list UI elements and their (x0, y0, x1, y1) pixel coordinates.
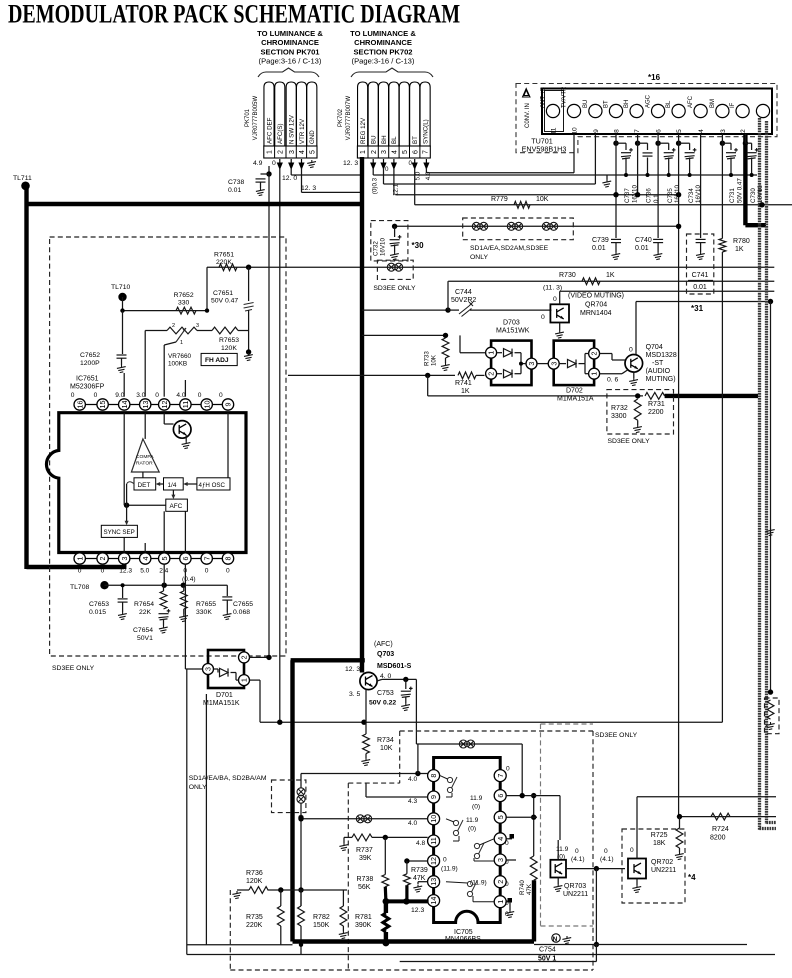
svg-text:11: 11 (429, 837, 438, 844)
svg-text:47K: 47K (526, 883, 533, 895)
svg-text:BM: BM (710, 99, 716, 108)
svg-text:GND: GND (309, 130, 316, 144)
svg-text:9: 9 (429, 795, 438, 799)
svg-text:4.0: 4.0 (408, 820, 417, 827)
svg-text:IC705: IC705 (454, 929, 473, 936)
svg-text:C736: C736 (646, 188, 653, 203)
capacitor C741 0.01 (696, 238, 706, 240)
svg-text:2: 2 (487, 372, 496, 376)
dashed outline IC705 SD3EE region (400, 730, 593, 732)
svg-text:9.0: 9.0 (115, 392, 124, 399)
svg-text:R736: R736 (246, 870, 263, 877)
wire y796.7 to cable (637, 796, 776, 798)
resistor R7655 330K (183, 585, 185, 591)
wire pin5 to x533.7 (506, 816, 537, 818)
wire tuner pin7 down (637, 143, 639, 195)
wire R730 line y281 (448, 280, 774, 282)
thick wire left edge vertical (24, 186, 28, 569)
svg-text:D701: D701 (216, 692, 233, 699)
CONV.IN antenna symbol (523, 89, 531, 98)
svg-text:QR702: QR702 (651, 859, 673, 866)
wire D703 pin3 to D702 pin3 (537, 363, 548, 365)
resistor R7651 220K (219, 264, 237, 271)
svg-text:0: 0 (205, 568, 209, 575)
svg-text:8: 8 (614, 129, 621, 133)
svg-text:12. 3: 12. 3 (301, 185, 316, 192)
svg-text:(11.9): (11.9) (441, 866, 458, 873)
capacitor C731 50V 0.47 (720, 141, 725, 146)
svg-text:50V 0.47: 50V 0.47 (211, 298, 238, 305)
resistor R733 10K (442, 338, 449, 358)
svg-text:BU: BU (583, 100, 589, 108)
wire IC705 pin10 line (301, 818, 428, 820)
transistor inside IC7651 (173, 421, 191, 439)
svg-text:C7651: C7651 (213, 290, 233, 297)
svg-text:DET: DET (138, 482, 151, 489)
wire y375 R741 line (288, 374, 455, 376)
wire pin3 from SYNC SEP (123, 537, 125, 552)
svg-text:330: 330 (178, 300, 190, 307)
wire y310 C744 line (362, 309, 448, 311)
wire tuner pin8 down to C739 (615, 143, 617, 238)
svg-text:11: 11 (181, 401, 190, 408)
svg-text:AFC: AFC (170, 503, 183, 510)
thick pin14 wire (386, 899, 429, 903)
wire dot cable R779 line (759, 202, 764, 207)
wire R724 line y816.6 (680, 816, 777, 818)
svg-text:IF: IF (730, 102, 736, 108)
svg-text:CHROMINANCE: CHROMINANCE (261, 38, 319, 47)
svg-text:UN2211: UN2211 (563, 891, 588, 898)
svg-text:11: 11 (551, 127, 558, 134)
svg-text:4.0: 4.0 (176, 392, 185, 399)
resistor R730 1K (582, 278, 600, 285)
box FH ADJ (201, 353, 237, 365)
IC7651 chain bottom (74, 558, 234, 560)
svg-text:50V2R2: 50V2R2 (451, 297, 476, 304)
svg-text:9: 9 (224, 403, 233, 407)
IC705 left pin chain (433, 770, 435, 906)
diode D703 lower (497, 373, 502, 375)
svg-text:0.01: 0.01 (228, 187, 241, 194)
capacitor C732 16V10 (392, 224, 397, 229)
capacitor C753 50V 0.22 (405, 679, 407, 689)
svg-text:56K: 56K (358, 884, 371, 891)
capacitor C737 16V10 (613, 141, 618, 146)
svg-text:Q703: Q703 (377, 651, 394, 658)
svg-text:MA151WK: MA151WK (496, 328, 530, 335)
svg-text:5: 5 (676, 129, 683, 133)
capacitor C734 16V10 (676, 141, 681, 146)
wire BL y194.7 (395, 194, 678, 196)
wire BM corner to D701 line y722 (260, 721, 722, 723)
svg-text:8: 8 (429, 774, 438, 778)
resistor R736 120K (232, 891, 241, 899)
ground of capacitor bus (606, 175, 608, 180)
svg-text:22K: 22K (139, 609, 152, 616)
svg-text:2: 2 (172, 323, 175, 329)
svg-text:C740: C740 (635, 237, 652, 244)
svg-text:(AUDIO: (AUDIO (646, 368, 671, 375)
svg-text:(0)0.3: (0)0.3 (372, 177, 379, 194)
wire PK702 pin6 vertical (414, 168, 416, 205)
svg-text:M1MA151K: M1MA151K (203, 700, 240, 707)
svg-text:TV/VTR: TV/VTR (562, 86, 568, 108)
wire pin6 to x533.7 (506, 795, 560, 797)
wire pin6 line to QR703 region (559, 796, 561, 840)
svg-text:IC7651: IC7651 (76, 376, 99, 383)
svg-text:BH: BH (381, 135, 388, 144)
box 1/4 (164, 478, 184, 490)
svg-text:1/4: 1/4 (168, 482, 177, 489)
wire pin6 down to D701 (184, 564, 186, 669)
wire PK701 pin1 vertical (268, 166, 270, 174)
svg-text:0: 0 (71, 392, 75, 399)
wire 12.3 stub PK701 pin4 (302, 191, 361, 193)
wire y335 R733 line (362, 334, 446, 336)
svg-text:50V 0.22: 50V 0.22 (369, 700, 396, 707)
svg-text:SD3EE ONLY: SD3EE ONLY (595, 732, 638, 739)
svg-text:MSD1328: MSD1328 (646, 352, 677, 359)
svg-text:1K: 1K (606, 272, 615, 279)
wire junction vertical x207 (206, 267, 208, 310)
svg-text:VJR0777B007W: VJR0777B007W (346, 95, 352, 140)
thick wire corner to Q703 area (291, 658, 365, 662)
capacitor C7651 50V 0.47 (248, 267, 250, 301)
svg-text:4.8: 4.8 (416, 840, 425, 847)
transistor Q704 MSD1328-ST AUDIO MUTING (625, 355, 643, 373)
jumper pair SD3EE (387, 263, 395, 271)
svg-text:50V1: 50V1 (137, 635, 153, 642)
svg-text:14: 14 (120, 401, 129, 409)
svg-text:0: 0 (553, 296, 557, 303)
svg-text:C7655: C7655 (233, 601, 253, 608)
svg-text:12. 3: 12. 3 (345, 666, 360, 673)
wire tuner pin5 BL down long (678, 143, 680, 816)
svg-text:*16: *16 (648, 73, 661, 82)
svg-text:0: 0 (629, 347, 633, 354)
dashed box *16 around tuner TU701 (516, 84, 777, 153)
wire BU rail y175 with caps bus (373, 174, 757, 176)
svg-text:330K: 330K (196, 609, 212, 616)
thin vertical right of cable (770, 302, 772, 693)
resistor R725 18K (679, 817, 681, 828)
svg-text:AFC DEF: AFC DEF (266, 117, 273, 144)
svg-text:R733: R733 (424, 351, 431, 366)
dashed box C732 *30 SD3EE (371, 221, 408, 261)
svg-text:15: 15 (98, 401, 107, 409)
wire pin14 down to SYNC SEP node (123, 413, 125, 506)
wire tuner pin3 BM down long (721, 143, 723, 238)
svg-text:ENV598B1H3: ENV598B1H3 (522, 145, 567, 154)
svg-text:BH: BH (624, 100, 630, 108)
svg-text:SYNC(L): SYNC(L) (422, 119, 429, 144)
svg-text:QR704: QR704 (585, 302, 607, 309)
svg-text:SYNC SEP: SYNC SEP (104, 529, 135, 536)
IC705 left pins 8-14 (428, 770, 440, 782)
jumper pair on pin10 line (356, 815, 364, 823)
diode D703 upper (497, 352, 502, 354)
svg-text:6: 6 (496, 794, 505, 798)
wire pin3 stub (506, 859, 516, 861)
svg-text:M52306FP: M52306FP (70, 384, 105, 391)
svg-text:COMPA: COMPA (136, 454, 154, 460)
diode pack D701 M1MA151K (208, 650, 244, 688)
capacitor C7654 50V1 (159, 613, 169, 615)
svg-text:C744: C744 (455, 289, 472, 296)
ground PK701 pin5 (307, 160, 316, 168)
svg-text:390K: 390K (355, 922, 372, 929)
svg-text:C753: C753 (377, 690, 394, 697)
capacitor C7655 0.068 (226, 585, 228, 596)
capacitor C736 0.1 (635, 141, 640, 146)
svg-text:SD1A/EA,SD2AM,SD3EE: SD1A/EA,SD2AM,SD3EE (470, 245, 549, 252)
svg-text:REG 12V: REG 12V (360, 117, 367, 144)
capacitor C730 16V10 (743, 141, 748, 146)
svg-text:10K: 10K (536, 196, 549, 203)
resistor R7653 120K (212, 327, 238, 334)
svg-text:7: 7 (202, 557, 211, 561)
svg-text:Q704: Q704 (646, 344, 663, 351)
arrow 1/4 to DET (159, 483, 163, 485)
wire x533.7 up to pin6/5 lines (533, 796, 535, 856)
svg-text:R7654: R7654 (134, 601, 154, 608)
svg-text:150K: 150K (313, 922, 330, 929)
svg-text:9: 9 (593, 129, 600, 133)
dashed box C741 *31 (687, 234, 714, 294)
arrow 1/4 down to AFC (172, 490, 174, 496)
svg-text:5: 5 (309, 150, 316, 154)
svg-text:CHROMINANCE: CHROMINANCE (354, 38, 412, 47)
svg-text:N: N (553, 936, 558, 943)
jumper pair vertical x301 (297, 788, 305, 796)
resistor R779 10K (514, 201, 530, 208)
svg-text:SECTION PK702: SECTION PK702 (353, 47, 412, 56)
wire BH y184 (384, 183, 596, 185)
svg-text:(0): (0) (557, 854, 565, 861)
svg-text:SECTION PK701: SECTION PK701 (260, 47, 320, 56)
box AFC (166, 499, 188, 511)
svg-text:2200: 2200 (648, 409, 664, 416)
wire pin13 into comparator (144, 413, 146, 439)
svg-text:C754: C754 (539, 947, 556, 954)
capacitor C740 0.01 (653, 238, 663, 240)
svg-text:FH ADJ: FH ADJ (205, 357, 229, 364)
svg-text:R737: R737 (356, 847, 373, 854)
svg-text:0: 0 (219, 392, 223, 399)
svg-text:0: 0 (94, 392, 98, 399)
svg-text:R7653: R7653 (219, 337, 239, 344)
wire PK702 pin4 vertical (393, 168, 395, 195)
svg-text:R779: R779 (491, 196, 508, 203)
svg-text:3: 3 (120, 557, 129, 561)
svg-text:R738: R738 (357, 876, 374, 883)
svg-text:47K: 47K (413, 875, 426, 882)
svg-text:12.3: 12.3 (411, 907, 424, 914)
svg-text:0: 0 (101, 568, 105, 575)
wire PK701 pin4 vertical (301, 168, 303, 192)
wire pin4 stub (506, 838, 512, 840)
svg-text:2: 2 (277, 150, 284, 154)
svg-text:1K: 1K (461, 388, 470, 395)
thick wire to IC7651 pin3 (27, 565, 125, 569)
svg-text:BT: BT (604, 100, 610, 108)
wire left verticals bottom (186, 669, 188, 955)
svg-text:3: 3 (196, 323, 199, 329)
svg-text:SD3EE ONLY: SD3EE ONLY (52, 665, 95, 672)
diode D701 (214, 668, 219, 670)
rail y961.5 (400, 961, 597, 963)
svg-text:*4: *4 (688, 873, 696, 882)
IC7651 body (46, 413, 246, 553)
wire IC705 pin12 line R739 (407, 860, 428, 862)
jumper box SD1A/EA,SD2AM,SD3EE ONLY (463, 218, 574, 240)
svg-text:39K: 39K (359, 855, 372, 862)
svg-text:(VIDEO MUTING): (VIDEO MUTING) (568, 293, 624, 300)
svg-text:AFC: AFC (688, 95, 694, 108)
wire D701 pin3 from IC7651 pin6 (185, 668, 202, 670)
diode D702 (559, 363, 566, 365)
svg-text:8: 8 (224, 557, 233, 561)
svg-text:TL710: TL710 (111, 284, 130, 291)
jumper pair 3 (542, 222, 550, 230)
svg-text:R741: R741 (455, 380, 472, 387)
svg-text:0: 0 (541, 314, 545, 321)
svg-text:4.3: 4.3 (408, 798, 417, 805)
resistor R782 150K (300, 890, 302, 906)
svg-text:7: 7 (423, 150, 430, 154)
svg-text:DEMODULATOR PACK SCHEMATIC DIA: DEMODULATOR PACK SCHEMATIC DIAGRAM (8, 0, 460, 29)
thin rail y954.5 (187, 954, 775, 956)
wire N SW 12V from PK701 pin3 (291, 174, 360, 176)
svg-text:QR703: QR703 (564, 883, 586, 890)
svg-text:C7653: C7653 (89, 601, 109, 608)
svg-text:R782: R782 (313, 914, 330, 921)
svg-text:0: 0 (226, 568, 230, 575)
jumper box SD3EE ONLY on y267 line (377, 260, 413, 279)
svg-text:0: 0 (443, 857, 447, 864)
svg-text:12. 0: 12. 0 (282, 175, 297, 182)
svg-text:AFC(S): AFC(S) (277, 123, 284, 144)
svg-text:0: 0 (575, 848, 579, 855)
capacitor C7652 1200P (122, 311, 124, 354)
svg-text:10: 10 (429, 815, 438, 823)
svg-text:(0.4): (0.4) (182, 576, 196, 583)
svg-text:0.01: 0.01 (693, 284, 707, 291)
svg-text:(Page:3-16 / C-13): (Page:3-16 / C-13) (352, 57, 415, 66)
wire y310.6 TL710 to junction (123, 310, 208, 312)
box DET (134, 478, 156, 490)
svg-text:3: 3 (381, 150, 388, 154)
svg-text:0: 0 (505, 840, 509, 847)
svg-text:11.9: 11.9 (466, 817, 479, 824)
svg-text:0.1: 0.1 (653, 194, 660, 203)
svg-text:5.0: 5.0 (140, 568, 149, 575)
svg-text:TL708: TL708 (70, 584, 89, 591)
svg-text:D703: D703 (503, 320, 520, 327)
svg-text:0.01: 0.01 (635, 245, 649, 252)
tuner inner IF section box (545, 91, 564, 132)
wire comparator base down (142, 472, 144, 478)
svg-text:N SW 12V: N SW 12V (289, 114, 296, 144)
wire PK702 pin3 vertical (383, 168, 385, 184)
svg-text:PK701: PK701 (245, 108, 251, 127)
svg-text:VJR0777B005W: VJR0777B005W (253, 95, 259, 140)
svg-text:12.3: 12.3 (119, 568, 132, 575)
ground R7653 node (248, 331, 250, 353)
svg-text:0.068: 0.068 (233, 609, 250, 616)
svg-text:UN2211: UN2211 (651, 867, 676, 874)
svg-text:ONLY: ONLY (189, 784, 207, 791)
wire x416.4 down to jumper line (415, 679, 417, 744)
svg-text:TO LUMINANCE &: TO LUMINANCE & (257, 29, 323, 38)
svg-text:1: 1 (75, 557, 84, 561)
IC705 right pins 7-1 (494, 770, 506, 782)
svg-text:R730: R730 (559, 272, 576, 279)
svg-text:12: 12 (160, 401, 169, 409)
svg-text:11.9: 11.9 (556, 846, 569, 853)
dashed box R732/R731 SD3EE ONLY (607, 390, 674, 434)
jumper line y226.3 from C732 (395, 225, 679, 227)
svg-text:2: 2 (240, 655, 249, 659)
svg-text:3.0: 3.0 (136, 392, 145, 399)
svg-text:0.01: 0.01 (592, 245, 606, 252)
svg-text:3. 5: 3. 5 (349, 691, 361, 698)
resistor R738 56K (384, 837, 386, 874)
svg-text:5: 5 (160, 557, 169, 561)
tuner TU701 box (542, 89, 772, 135)
svg-text:C7652: C7652 (80, 352, 100, 359)
diode pack D702 M1MA151A (554, 341, 594, 386)
svg-text:0: 0 (198, 392, 202, 399)
thick wire y204 horizontal (25, 202, 363, 206)
wire QR702 collector up to y796.7 (636, 797, 638, 859)
wire pin5 down (163, 564, 165, 585)
svg-text:8200: 8200 (710, 835, 726, 842)
svg-text:10: 10 (202, 401, 211, 409)
svg-text:AGC: AGC (646, 94, 652, 108)
svg-text:(0): (0) (468, 826, 476, 833)
svg-text:5.0: 5.0 (414, 171, 421, 180)
svg-text:3: 3 (204, 667, 213, 671)
svg-text:2: 2 (496, 880, 505, 884)
arrow OSC to 1/4 (187, 483, 197, 485)
IC7651 top pins 16-9 (74, 399, 85, 410)
wire IC705 pin9 line (366, 796, 428, 798)
svg-text:4: 4 (496, 837, 505, 841)
svg-text:0: 0 (506, 766, 510, 773)
svg-text:R7652: R7652 (174, 292, 194, 299)
svg-text:SD1A/EA/BA, SD2BA/AM: SD1A/EA/BA, SD2BA/AM (189, 775, 267, 782)
svg-text:0: 0 (604, 848, 608, 855)
resistor R732 3300 (634, 399, 641, 420)
transistor QR704 VIDEO MUTING (550, 304, 569, 322)
svg-text:10K: 10K (380, 745, 393, 752)
svg-text:(11. 3): (11. 3) (543, 285, 562, 292)
svg-text:50V 0.47: 50V 0.47 (736, 178, 743, 203)
svg-text:7: 7 (496, 774, 505, 778)
wire IC705 pin13 ground stub (418, 881, 428, 883)
wire y396 muting line (428, 395, 643, 397)
svg-text:BL: BL (666, 100, 672, 108)
svg-text:1: 1 (180, 340, 183, 346)
tuner pins (546, 104, 559, 117)
wire node x427.7 down (427, 375, 429, 396)
svg-text:(4.1): (4.1) (571, 856, 585, 863)
svg-text:0: 0 (385, 166, 389, 173)
ground above pin14 wire (413, 885, 422, 893)
svg-text:PK702: PK702 (338, 108, 344, 127)
